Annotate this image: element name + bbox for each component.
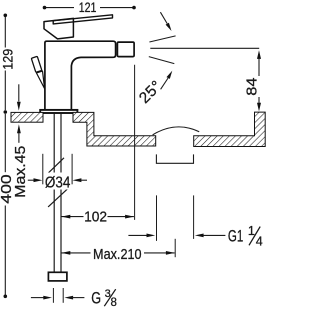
leader arrow to upper spray ray	[160, 12, 171, 31]
svg-text:G: G	[91, 288, 101, 307]
pop-up rod lever paddle	[36, 71, 44, 89]
threaded rod	[53, 113, 55, 272]
thread mark 1	[48, 158, 64, 173]
dimension 121 line	[45, 7, 135, 9]
G 3/8 extension lines	[52, 288, 54, 303]
diameter 34 arrows	[28, 179, 35, 181]
svg-text:129: 129	[0, 49, 16, 70]
diameter 34 extension lines	[42, 154, 44, 185]
svg-text:84: 84	[244, 78, 261, 96]
dimension 102	[61, 216, 83, 218]
deck left strip	[11, 112, 43, 122]
ceramic dome arc	[153, 127, 200, 135]
G 3/8 arrows	[31, 297, 44, 299]
faucet body	[45, 41, 116, 110]
deck left L-section	[73, 112, 156, 146]
svg-text:Ø34: Ø34	[45, 174, 71, 191]
spout nozzle	[117, 42, 134, 57]
thread mark 2	[48, 189, 68, 207]
spray fan middle ray	[150, 47, 259, 49]
25 degree leader arrow	[161, 71, 173, 90]
G1 1/4 arrows	[128, 234, 147, 236]
Max.210 right extension line	[174, 239, 176, 257]
drain collar bracket	[156, 154, 193, 163]
svg-text:Max.210: Max.210	[93, 246, 142, 263]
Max.45 arrows	[18, 84, 20, 101]
base flange	[40, 110, 77, 113]
hose fitting	[48, 272, 67, 281]
handle lever	[53, 15, 112, 24]
svg-text:G1: G1	[228, 227, 243, 245]
spray fan lower ray	[149, 57, 175, 64]
drain extension lines	[156, 195, 158, 241]
nozzle tip extension line	[134, 65, 136, 220]
svg-text:8: 8	[111, 297, 117, 309]
svg-text:4: 4	[256, 234, 263, 248]
svg-text:102: 102	[84, 208, 107, 225]
handle base block	[44, 18, 73, 39]
deck right L-section	[194, 112, 266, 146]
dimension Max.210	[61, 252, 90, 254]
svg-text:Max.45: Max.45	[13, 146, 29, 198]
diameter 34 label	[44, 173, 72, 190]
dimension 121 end dots	[43, 6, 47, 10]
svg-text:121: 121	[79, 0, 97, 15]
left dimension line (129 / 400)	[4, 17, 6, 296]
spray fan upper ray	[149, 36, 175, 42]
dimension 84	[258, 57, 260, 104]
